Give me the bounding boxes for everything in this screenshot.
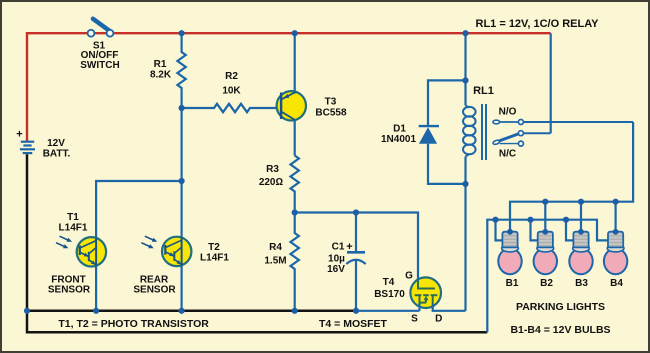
switch S1: [80, 19, 119, 71]
svg-text:BATT.: BATT.: [43, 149, 71, 160]
svg-text:1.5M: 1.5M: [264, 256, 286, 267]
wire relay branch vertical: [464, 33, 466, 311]
svg-text:N/O: N/O: [499, 107, 517, 118]
svg-text:D1: D1: [393, 124, 406, 135]
wire ground rail blue continuation: [356, 310, 420, 312]
relay coil RL1: [463, 85, 494, 160]
mosfet T4 BS170: [374, 271, 465, 325]
resistor R3 220ohm: [259, 156, 299, 213]
phototransistor T1 L14F1: [77, 237, 106, 266]
svg-text:BS170: BS170: [374, 289, 405, 300]
svg-text:220Ω: 220Ω: [259, 177, 284, 188]
svg-text:B1: B1: [506, 278, 519, 289]
label T1 L14F1: [48, 212, 91, 295]
svg-text:R2: R2: [225, 71, 238, 82]
svg-text:RL1: RL1: [473, 85, 494, 97]
wire T1 collector branch: [96, 181, 182, 238]
svg-text:R1: R1: [154, 59, 167, 70]
resistor R4 1.5M: [264, 213, 299, 311]
svg-text:B1-B4 = 12V BULBS: B1-B4 = 12V BULBS: [510, 324, 610, 336]
svg-text:B4: B4: [610, 278, 623, 289]
svg-text:SENSOR: SENSOR: [133, 285, 176, 296]
svg-text:SWITCH: SWITCH: [80, 60, 119, 71]
wire positive red rail: [27, 33, 551, 142]
svg-text:+: +: [16, 129, 22, 141]
diode D1 1N4001: [381, 80, 466, 183]
wire bulb shell bus: [487, 220, 608, 333]
wire bulb feed bus: [510, 122, 633, 232]
transistor T3 BC558: [277, 33, 347, 155]
resistor R1 8.2K: [150, 33, 186, 108]
wire T1 emitter to ground: [95, 266, 97, 311]
legend mosfet: [319, 318, 388, 330]
svg-text:T3: T3: [325, 97, 337, 108]
svg-text:SENSOR: SENSOR: [48, 285, 91, 296]
svg-text:D: D: [435, 314, 442, 325]
svg-text:N/C: N/C: [499, 149, 516, 160]
resistor R2 10K: [182, 71, 282, 112]
svg-text:PARKING LIGHTS: PARKING LIGHTS: [516, 301, 605, 313]
svg-text:12V: 12V: [47, 138, 65, 149]
svg-text:C1: C1: [332, 242, 345, 253]
legend parking lights: [516, 301, 605, 313]
wire T2 branch vertical: [181, 108, 183, 311]
wire ground rail black: [27, 154, 487, 332]
svg-text:L14F1: L14F1: [59, 223, 88, 234]
bulb B3: [569, 232, 592, 289]
svg-text:RL1 = 12V, 1C/O RELAY: RL1 = 12V, 1C/O RELAY: [476, 18, 600, 30]
svg-text:T4: T4: [383, 277, 395, 288]
wire gate node horizontal: [295, 213, 418, 280]
bulb B4: [604, 232, 627, 289]
legend photo transistor: [58, 318, 209, 330]
svg-text:B3: B3: [575, 278, 588, 289]
svg-text:BC558: BC558: [315, 108, 347, 119]
svg-text:B2: B2: [540, 278, 553, 289]
light arrows T1: [56, 236, 72, 248]
phototransistor T2 L14F1: [162, 237, 191, 266]
capacitor C1 10u 16V: [327, 213, 366, 311]
legend RL1 relay: [476, 18, 600, 30]
svg-text:L14F1: L14F1: [200, 252, 229, 263]
svg-text:1N4001: 1N4001: [381, 134, 416, 145]
battery 12V BATT.: [16, 129, 70, 160]
light arrows T2: [141, 236, 157, 248]
bulb B1: [498, 232, 521, 289]
svg-text:+: +: [346, 241, 352, 253]
svg-text:R4: R4: [269, 242, 282, 253]
svg-text:S: S: [411, 314, 418, 325]
svg-text:T4 = MOSFET: T4 = MOSFET: [319, 318, 388, 330]
svg-text:T1, T2 = PHOTO TRANSISTOR: T1, T2 = PHOTO TRANSISTOR: [58, 318, 209, 330]
svg-text:16V: 16V: [327, 264, 345, 275]
svg-text:R3: R3: [266, 164, 279, 175]
bulb B2: [534, 232, 557, 289]
svg-text:8.2K: 8.2K: [150, 70, 172, 81]
svg-text:10K: 10K: [222, 86, 241, 97]
svg-text:10µ: 10µ: [328, 253, 345, 264]
label T2 L14F1: [133, 242, 229, 296]
svg-text:G: G: [405, 271, 413, 282]
wire relay top riser: [550, 33, 552, 133]
relay contacts N/O N/C: [492, 107, 633, 160]
legend bulbs: [510, 324, 610, 336]
